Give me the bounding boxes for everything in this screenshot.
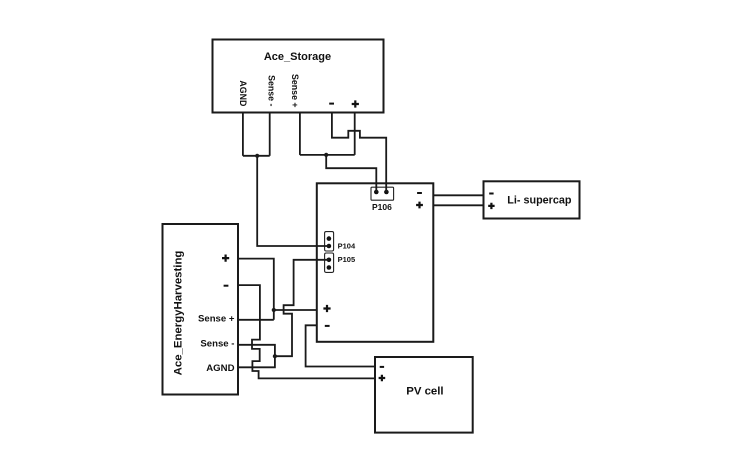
svg-text:P106: P106: [372, 202, 392, 212]
svg-text:Li- supercap: Li- supercap: [507, 194, 572, 206]
wire Ace_EnergyHarvesting - pin to PV cell + (with hops): [238, 285, 375, 378]
svg-text:AGND: AGND: [238, 80, 248, 106]
svg-text:PV cell: PV cell: [406, 386, 443, 398]
wire board + output to Li-supercap +: [433, 204, 483, 206]
svg-text:Sense +: Sense +: [290, 74, 300, 108]
connector P104: [325, 232, 334, 251]
pin label + (board left input): [323, 305, 330, 312]
wire Sense-/AGND node to P105 pin (with jog): [275, 260, 329, 356]
svg-text:Sense -: Sense -: [200, 339, 234, 350]
pin label - (Ace_EnergyHarvesting): [224, 285, 229, 287]
svg-text:AGND: AGND: [206, 363, 234, 374]
svg-text:Sense -: Sense -: [267, 75, 277, 106]
svg-text:Ace_Storage: Ace_Storage: [264, 51, 331, 63]
svg-text:P104: P104: [338, 242, 356, 251]
pin label - (board left input): [325, 325, 330, 327]
pin label - (Li-supercap): [489, 193, 493, 195]
wire node to board + input: [274, 309, 317, 311]
wire Sense+ to + tie bar: [300, 154, 355, 156]
component Li-supercap box: [484, 181, 580, 218]
wire Ace_EnergyHarvesting + pin right and down: [238, 259, 274, 320]
pin label + (PV cell): [379, 375, 386, 382]
svg-text:Sense +: Sense +: [198, 313, 235, 324]
wire AGND / Sense- tie bar: [243, 155, 270, 157]
wire Ace_Storage - to P106 pin 2 (with hop): [332, 113, 386, 193]
component Ace_EnergyHarvesting box U2: [163, 224, 239, 395]
pin label - (board right output): [417, 192, 422, 194]
pin label + (Ace_EnergyHarvesting): [222, 255, 229, 262]
junction +/Sense+ node: [272, 308, 276, 312]
wire Ace_Storage AGND down: [242, 113, 244, 156]
wire Ace_Storage Sense+ down: [299, 113, 301, 155]
junction AGND/Sense- node: [255, 154, 259, 158]
wire Ace_Storage Sense- down: [269, 113, 271, 156]
component Ace_Storage box U1: [213, 40, 384, 113]
wire junction to P104 pin: [257, 156, 329, 246]
svg-text:P105: P105: [338, 255, 356, 264]
wire storage + node to P106 pin 1: [326, 155, 376, 192]
pin label - (PV cell): [380, 366, 384, 368]
wire board - output to Li-supercap -: [433, 194, 483, 196]
pin label - (Ace_Storage): [329, 103, 334, 105]
connector P105: [325, 253, 334, 272]
pin label + (board right output): [416, 202, 423, 209]
junction storage + node: [324, 153, 328, 157]
component energy-harvester main board U3: [317, 183, 434, 341]
wire Ace_EnergyHarvesting Sense+ pin: [238, 319, 274, 321]
component PV cell box: [375, 357, 473, 433]
wire board - input to PV cell -: [306, 325, 375, 366]
wire Ace_EnergyHarvesting AGND pin: [238, 356, 275, 367]
connector P106: [371, 187, 394, 200]
pin label + (Li-supercap): [488, 203, 494, 209]
wire Ace_EnergyHarvesting Sense- pin: [238, 345, 275, 356]
junction Sense-/AGND node: [273, 354, 277, 358]
svg-text:Ace_EnergyHarvesting: Ace_EnergyHarvesting: [173, 251, 185, 376]
pin label + (Ace_Storage): [352, 100, 359, 107]
wire Ace_Storage + down: [354, 113, 356, 155]
